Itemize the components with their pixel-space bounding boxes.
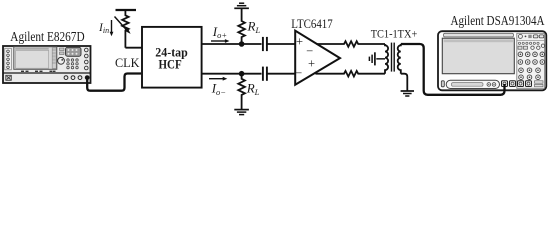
svg-text:HCF: HCF — [159, 57, 182, 72]
transformer secondary winding — [398, 44, 401, 74]
wire: cap to amp (bottom) — [267, 73, 295, 75]
supply rail symbol (top) — [234, 3, 249, 8]
resistor RL (bottom) — [238, 74, 245, 110]
svg-text:−: − — [295, 66, 302, 80]
wire + series resistor (top output) — [316, 41, 385, 47]
svg-text:+: + — [308, 57, 315, 71]
signal generator front panel (Agilent E8267D) — [3, 46, 91, 83]
control panel — [517, 33, 545, 88]
svg-text:LTC6417: LTC6417 — [291, 16, 333, 31]
oscilloscope front panel (Agilent DSA91304A) — [438, 31, 546, 90]
bottom connectors — [502, 81, 532, 87]
svg-text:−: − — [306, 44, 313, 58]
input current source: variable resistor body — [122, 10, 128, 48]
svg-text:+: + — [296, 35, 303, 49]
capacitor (top path) — [263, 37, 267, 51]
small buttons left of cluster — [60, 48, 65, 51]
block: 24-tap HCF — [142, 27, 202, 88]
node: top output — [239, 41, 245, 47]
wire: block output bottom rail — [201, 73, 262, 75]
knob — [58, 57, 65, 64]
capacitor (bottom path) — [263, 67, 267, 81]
wire: current source to block input — [125, 47, 142, 49]
ground (below bottom RL) — [234, 110, 249, 115]
transformer TC1-1TX+ : primary winding — [385, 44, 388, 74]
wire: block output top rail — [201, 43, 262, 45]
keypad dots — [67, 59, 78, 69]
center tap ground (rotated) — [369, 52, 375, 65]
bottom strip icon — [6, 75, 12, 80]
svg-text:CLK: CLK — [115, 55, 140, 70]
wire + series resistor (bottom output) — [315, 71, 385, 77]
svg-text:TC1-1TX+: TC1-1TX+ — [371, 27, 418, 41]
right connector column — [85, 48, 89, 70]
display bottom ticks — [21, 71, 56, 72]
transformer core — [391, 43, 393, 72]
divider — [3, 72, 91, 74]
power button — [441, 81, 444, 87]
wire: secondary low side to ground — [401, 74, 408, 91]
label Io- with right arrow — [209, 78, 223, 80]
op-amp LTC6417 (fully differential) — [295, 31, 340, 85]
coax cable: secondary to oscilloscope input — [401, 44, 505, 95]
svg-text:Agilent E8267D: Agilent E8267D — [10, 29, 85, 44]
input current source: diagonal arrow — [115, 17, 128, 32]
center tap wire — [376, 58, 385, 60]
node: bottom output — [239, 71, 245, 77]
svg-text:Agilent DSA91304A: Agilent DSA91304A — [451, 13, 545, 28]
coax cable: generator output to CLK input of HCF — [87, 74, 141, 91]
input current source: supply T-bar — [116, 9, 137, 11]
dark button cluster — [66, 47, 82, 56]
resistor RL (top) — [238, 8, 245, 44]
bottom slot — [446, 80, 499, 88]
bottom connectors — [64, 76, 89, 80]
wire: cap to amp (top) — [267, 43, 295, 45]
ground (secondary) — [401, 91, 414, 96]
